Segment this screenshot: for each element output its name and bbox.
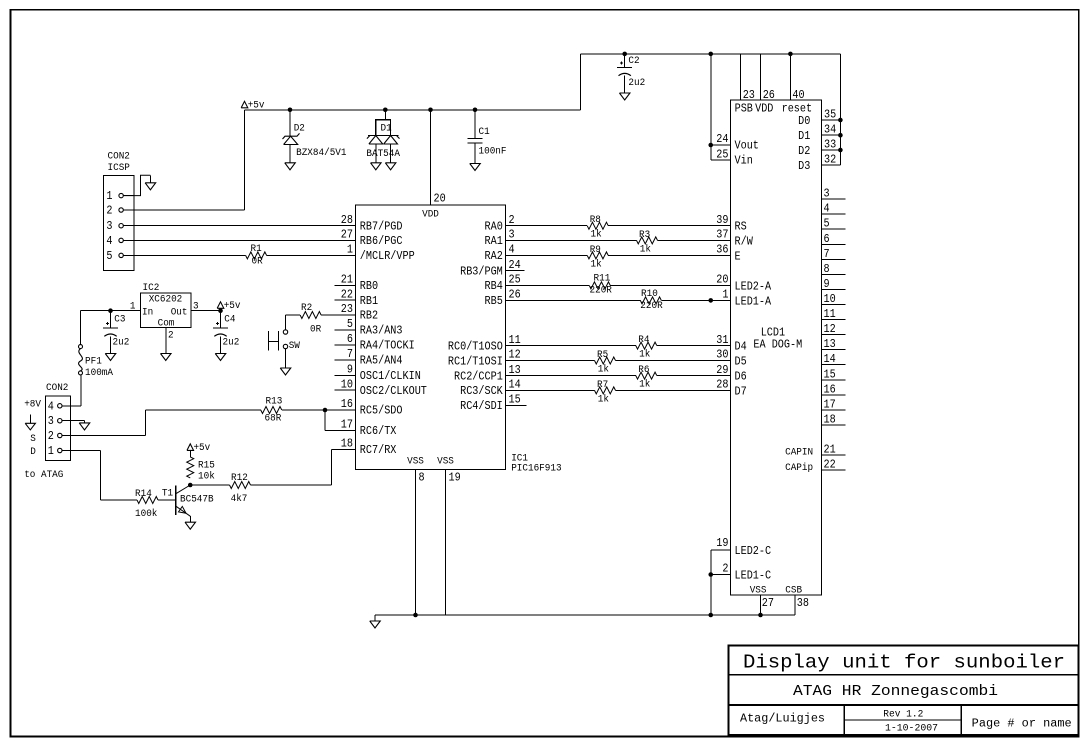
LCD1 pin 12 stub [822,334,846,336]
svg-text:RC6/TX: RC6/TX [360,424,397,438]
wire ICSP pin3 to RB7 [134,225,356,227]
svg-text:12: 12 [824,322,836,336]
svg-text:RB0: RB0 [360,279,378,293]
svg-text:R3: R3 [639,230,650,241]
svg-text:35: 35 [824,108,836,122]
IC U1 PIC16F913 body [356,205,506,469]
svg-text:27: 27 [341,228,353,242]
svg-text:8: 8 [824,262,830,276]
svg-text:220R: 220R [590,286,612,297]
svg-text:1k: 1k [640,243,651,255]
svg-text:RC5/SDO: RC5/SDO [360,404,403,418]
wire R7 row [506,389,595,391]
svg-text:CON2: CON2 [108,152,130,163]
wire rail to D2 [288,108,293,113]
svg-text:14: 14 [824,352,836,366]
svg-text:R14: R14 [135,489,152,500]
junction pin27 [758,613,763,618]
svg-text:D0: D0 [798,114,810,128]
connector CON2 to ATAG [46,396,71,461]
svg-text:C3: C3 [114,315,125,326]
IC1 pin 6 stub [335,344,356,346]
svg-text:2: 2 [722,562,728,576]
+5v at IC2 out [217,302,224,309]
svg-text:D6: D6 [735,370,747,384]
IC1 pin 22 stub [335,299,356,301]
wire ICSP pin1 to ground [124,175,150,195]
IC1 RC4 stub [506,404,527,406]
resistor R10 220R [640,297,661,304]
svg-text:RA4/TOCKI: RA4/TOCKI [360,339,415,353]
wire R13 to RC5 [282,409,356,411]
LCD1 pin 34 D1 [822,134,841,136]
svg-text:/MCLR/VPP: /MCLR/VPP [360,249,415,263]
svg-text:1k: 1k [639,379,650,391]
junction T1 collector [188,483,193,488]
svg-text:28: 28 [716,378,728,392]
svg-text:R1: R1 [251,244,262,255]
svg-text:29: 29 [716,363,728,377]
svg-text:4k7: 4k7 [231,493,248,505]
svg-text:Vout: Vout [735,138,759,152]
svg-text:VSS: VSS [437,457,454,468]
svg-text:C1: C1 [479,127,490,138]
svg-text:220R: 220R [640,301,662,312]
wire +5v rail [245,109,581,111]
svg-text:1: 1 [48,444,54,458]
junction D bus y120 [838,118,843,123]
svg-text:2: 2 [168,330,174,341]
svg-text:VSS: VSS [407,457,424,468]
svg-text:5: 5 [347,317,353,331]
LCD1 pin 5 stub [822,228,846,230]
LCD1 pin 15 stub [822,379,846,381]
wire CON2 pin3 to ground [71,420,85,422]
svg-text:D7: D7 [735,384,747,398]
wire R14 to T1 base [158,499,176,501]
ground under D2 [285,163,296,170]
LCD1 pin 32 D3 [822,164,841,166]
svg-text:9: 9 [824,277,830,291]
svg-text:18: 18 [824,413,836,427]
ground under D1 right [385,163,396,170]
svg-text:30: 30 [716,348,728,362]
svg-text:RA0: RA0 [485,220,503,234]
svg-text:D1: D1 [798,129,810,143]
resistor R15 10k [187,457,194,478]
ground under C3 [105,354,116,361]
svg-text:Vin: Vin [735,154,753,168]
LCD pin 24 Vout [711,144,731,146]
svg-text:1k: 1k [598,364,609,376]
svg-text:10: 10 [341,377,353,391]
wire PF1 to IC2 In [80,311,82,345]
svg-text:11: 11 [509,333,521,347]
svg-text:12: 12 [509,348,521,362]
wire top rail [581,53,841,55]
svg-text:1k: 1k [598,393,609,405]
junction VSS8 [413,613,418,618]
svg-text:Out: Out [171,307,188,318]
fuse PF1 100mA [79,345,83,349]
svg-text:VDD: VDD [755,102,773,116]
wire R3 row [506,239,637,241]
svg-text:2: 2 [48,429,54,443]
svg-text:5: 5 [824,217,830,231]
svg-text:1k: 1k [591,258,602,270]
svg-text:PSB: PSB [735,102,753,116]
svg-text:26: 26 [763,88,775,102]
ground under C1 [470,164,481,171]
wire R12 to RC7 [251,484,332,486]
LCD1 pin 9 stub [822,289,846,291]
svg-text:D3: D3 [798,159,810,173]
wire R1 to MCLR [267,254,356,256]
svg-text:100nF: 100nF [479,147,507,158]
svg-text:RC2/CCP1: RC2/CCP1 [454,369,503,383]
LCD1 pin 16 stub [822,394,846,396]
wire CON2 pin1 to R14 [71,450,101,452]
svg-text:ATAG HR Zonnegascombi: ATAG HR Zonnegascombi [793,684,998,700]
LCD1 pin 18 stub [822,424,846,426]
svg-text:19: 19 [449,471,461,485]
svg-text:1k: 1k [591,229,602,241]
svg-text:2u2: 2u2 [223,337,240,348]
wire top rail to C2 [622,52,627,57]
svg-text:D1: D1 [381,124,392,135]
LCD pin 2 LED1-C [711,574,731,576]
svg-text:CSB: CSB [785,585,802,596]
svg-text:PF1: PF1 [85,356,102,367]
IC1 pin 21 stub [335,284,356,286]
svg-text:38: 38 [797,596,809,610]
IC2 XC6202 body [141,293,192,327]
junction D bus y150 [838,148,843,153]
svg-text:LED2-A: LED2-A [735,279,772,293]
svg-text:17: 17 [341,418,353,432]
wire R2 to SW [286,314,301,316]
svg-text:R2: R2 [301,303,312,314]
LCD pin 25 Vin [711,159,731,161]
+5v symbol [241,101,248,108]
svg-text:25: 25 [509,273,521,287]
capacitor C4 2u2 [213,327,228,329]
IC1 RB3 stub [506,270,525,272]
junction near LED1-A [708,298,713,303]
svg-text:OSC1/CLKIN: OSC1/CLKIN [360,369,421,383]
svg-text:6: 6 [824,232,830,246]
svg-text:+8V: +8V [24,399,41,410]
svg-text:23: 23 [341,302,353,316]
svg-text:33: 33 [824,138,836,152]
svg-text:R7: R7 [597,380,608,391]
svg-text:20: 20 [434,191,446,205]
svg-text:ICSP: ICSP [108,163,130,174]
ground symbol at bus [374,615,376,621]
wire RB5 row [506,299,641,301]
svg-text:Atag/Luigjes: Atag/Luigjes [740,712,825,726]
svg-text:In: In [142,307,153,318]
svg-text:R11: R11 [594,274,611,285]
ground under T1 [185,522,196,529]
wire PF1 to CON2 pin4 [80,375,82,406]
svg-text:5: 5 [106,249,112,263]
svg-text:2u2: 2u2 [628,78,645,89]
svg-text:R10: R10 [641,289,658,300]
svg-text:4: 4 [509,243,515,257]
svg-text:1: 1 [106,189,112,203]
LCD1 EA DOG-M body [731,100,822,595]
IC1 pin 20 VDD [430,110,432,205]
svg-text:CON2: CON2 [46,383,68,394]
wire down right side to D3 [839,54,841,165]
resistor R14 100k [137,497,158,504]
svg-text:26: 26 [509,288,521,302]
svg-text:D4: D4 [735,340,747,354]
wire C3 to ground [110,336,112,353]
svg-text:+5v: +5v [248,100,265,111]
svg-text:RA3/AN3: RA3/AN3 [360,324,403,338]
svg-text:T1: T1 [162,488,173,499]
svg-text:1: 1 [347,243,353,257]
svg-text:D5: D5 [735,355,747,369]
svg-text:2: 2 [509,213,515,227]
svg-text:RC0/T1OSO: RC0/T1OSO [448,339,503,353]
svg-text:36: 36 [716,243,728,257]
LCD1 pin 8 stub [822,273,846,275]
svg-text:34: 34 [824,123,836,137]
svg-text:Rev 1.2: Rev 1.2 [883,710,923,721]
wire rail to C1 [473,108,478,113]
wire ICSP pin2 to +5v [134,209,245,211]
svg-text:4: 4 [824,202,830,216]
svg-text:VDD: VDD [422,210,439,221]
svg-text:R6: R6 [638,365,649,376]
wire LED2-C riser [710,550,712,615]
IC1 pin 5 stub [335,329,356,331]
svg-text:PIC16F913: PIC16F913 [511,464,561,475]
svg-text:24: 24 [716,132,728,146]
svg-text:OSC2/CLKOUT: OSC2/CLKOUT [360,384,427,398]
wire R6 row [506,375,636,377]
junction D bus y135.2 [838,133,843,138]
resistor R8 1k [587,222,608,229]
LCD1 pin 3 stub [822,198,846,200]
+5v above R15 [187,444,194,451]
svg-text:25: 25 [716,147,728,161]
diode D1 BAT54A [376,120,391,136]
wire ICSP pin4 to RB6 [134,239,356,241]
transistor T1 BC547B [175,486,177,515]
svg-text:RC4/SDI: RC4/SDI [460,399,503,413]
wire Vout Vin riser [710,54,712,160]
svg-text:RB3/PGM: RB3/PGM [460,264,503,278]
capacitor C2 2u2 [617,67,632,69]
ground label symbol [29,414,31,423]
svg-text:C4: C4 [224,315,235,326]
wire riser to top rail [580,54,582,110]
svg-text:18: 18 [341,437,353,451]
svg-text:+5v: +5v [193,443,210,454]
svg-text:19: 19 [716,536,728,550]
LCD1 pin 17 stub [822,409,846,411]
LCD1 pin 10 stub [822,304,846,306]
ground under D1 left [371,163,382,170]
wire SW to ground [285,349,287,368]
wire to RC6 [324,410,326,430]
svg-text:15: 15 [509,393,521,407]
svg-text:E: E [735,249,741,263]
ground under SW [280,368,291,375]
resistor R13 68R [261,407,282,414]
wire CON2 pin2 to R13 [71,435,146,437]
resistor R3 1k [637,237,658,244]
wire R15 to +5v [189,450,191,457]
svg-text:D: D [30,447,36,458]
wire RB4 row [506,284,590,286]
svg-text:1: 1 [722,288,728,302]
LCD1 pin 13 stub [822,349,846,351]
wire R9 row [506,254,588,256]
wire C1 to ground [474,143,476,164]
svg-text:16: 16 [824,382,836,396]
svg-text:RB6/PGC: RB6/PGC [360,234,403,248]
svg-text:R8: R8 [590,215,601,226]
svg-text:IC2: IC2 [143,283,160,294]
svg-text:68R: 68R [265,413,282,424]
svg-text:BZX84/5V1: BZX84/5V1 [296,147,346,159]
svg-text:16: 16 [341,397,353,411]
wire ICSP pin5 to R1 [134,254,246,256]
svg-text:D2: D2 [294,124,305,135]
svg-text:10: 10 [824,292,836,306]
ground at ICSP pin1 [149,175,151,183]
LCD1 pin 11 stub [822,319,846,321]
wire R8 row [506,225,588,227]
svg-text:BC547B: BC547B [180,495,214,506]
wire rail to D1 [383,108,388,113]
svg-text:Page # or name: Page # or name [972,718,1072,731]
svg-text:100mA: 100mA [85,368,113,379]
LCD1 pin 4 stub [822,213,846,215]
svg-text:RC3/SCK: RC3/SCK [460,384,503,398]
svg-text:RC1/T1OSI: RC1/T1OSI [448,354,503,368]
resistor R6 1k [636,372,657,379]
svg-text:17: 17 [824,397,836,411]
svg-text:40: 40 [792,88,804,102]
svg-text:0R: 0R [252,257,263,268]
resistor R5 1k [595,357,616,364]
wire C4 to ground [220,336,222,353]
svg-text:22: 22 [824,458,836,472]
svg-text:CAPip: CAPip [785,462,813,474]
ground under C2 [619,93,630,100]
svg-text:2: 2 [106,204,112,218]
svg-text:8: 8 [419,471,425,485]
LCD1 pin 14 stub [822,364,846,366]
svg-text:6: 6 [347,332,353,346]
svg-text:SW: SW [289,341,300,352]
LCD1 pin 35 D0 [822,119,841,121]
svg-text:RA2: RA2 [485,249,503,263]
svg-text:9: 9 [347,363,353,377]
svg-text:11: 11 [824,307,836,321]
wire C2 to ground [624,76,626,93]
ground under IC2 [161,354,172,361]
svg-text:20: 20 [716,273,728,287]
ground under C4 [215,354,226,361]
svg-text:RB1: RB1 [360,294,378,308]
capacitor C3 2u2 [103,327,118,329]
LCD1 pin 6 stub [822,243,846,245]
svg-text:D2: D2 [798,144,810,158]
switch SW [283,330,287,334]
svg-text:15: 15 [824,367,836,381]
svg-text:C2: C2 [628,56,639,67]
LCD1 pin 22 stub [822,469,846,471]
svg-text:RA5/AN4: RA5/AN4 [360,354,403,368]
resistor R2 0R [300,312,321,319]
capacitor C1 100nF [468,138,483,140]
resistor R11 220R [589,282,610,289]
svg-text:LED2-C: LED2-C [735,544,772,558]
svg-text:24: 24 [509,258,521,272]
svg-text:28: 28 [341,213,353,227]
svg-text:LED1-C: LED1-C [735,569,772,583]
svg-text:LED1-A: LED1-A [735,294,772,308]
svg-text:23: 23 [743,88,755,102]
svg-text:R13: R13 [266,397,283,408]
svg-text:RS: RS [735,220,747,234]
IC1 pin 9 stub [335,374,356,376]
LCD1 pin 21 stub [822,454,846,456]
diode D2 BZX84/5V1 [283,133,300,139]
svg-text:21: 21 [824,443,836,457]
junction C3 [108,308,113,313]
svg-text:1k: 1k [639,349,650,361]
svg-text:EA DOG-M: EA DOG-M [753,337,802,351]
svg-text:32: 32 [824,153,836,167]
connector CON2 ICSP [104,175,134,270]
svg-text:2u2: 2u2 [113,337,130,348]
ground at CON2 pin3 [84,421,86,423]
svg-text:RA1: RA1 [485,234,503,248]
svg-text:R9: R9 [590,245,601,256]
svg-text:RC7/RX: RC7/RX [360,443,397,457]
wire RB2 to R2 [321,314,355,316]
IC1 pin 7 stub [335,359,356,361]
svg-text:+5v: +5v [224,301,241,312]
svg-text:14: 14 [509,378,521,392]
IC2 pin2 wire [165,328,167,354]
svg-text:0R: 0R [310,325,321,336]
svg-text:Display unit for sunboiler: Display unit for sunboiler [743,652,1065,674]
wire R5 row [506,360,595,362]
wire to C4 [220,311,222,328]
junction LED riser [708,613,713,618]
svg-text:3: 3 [509,228,515,242]
resistor R7 1k [595,387,616,394]
svg-text:7: 7 [824,247,830,261]
junction RC5/RC6 [323,408,328,413]
svg-text:39: 39 [716,213,728,227]
svg-text:R15: R15 [198,460,215,471]
svg-text:to ATAG: to ATAG [24,470,63,481]
IC1 pin 10 stub [335,389,356,391]
svg-text:RB7/PGD: RB7/PGD [360,220,403,234]
svg-text:10k: 10k [198,471,215,483]
LCD1 pin 7 stub [822,258,846,260]
